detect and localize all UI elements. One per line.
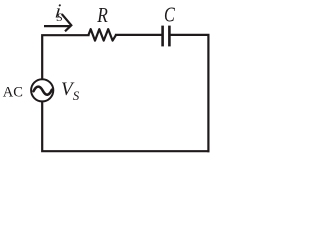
AC source V_S circle xyxy=(31,79,53,101)
wire resistor to capacitor xyxy=(116,34,161,36)
capacitor C left plate xyxy=(161,26,164,47)
current arrow head xyxy=(62,14,72,31)
resistor R xyxy=(89,29,117,40)
wire capacitor to top-right corner and right side xyxy=(171,35,209,151)
current arrow i_s shaft xyxy=(44,25,70,27)
capacitor C right plate xyxy=(168,26,171,47)
svg-text:R: R xyxy=(96,3,108,27)
svg-text:S: S xyxy=(73,88,80,103)
svg-text:AC: AC xyxy=(3,85,23,101)
wire bottom xyxy=(42,102,208,151)
svg-text:C: C xyxy=(164,3,176,27)
sine wave inside source xyxy=(34,87,52,95)
svg-text:S: S xyxy=(57,10,63,24)
wire top-left segment xyxy=(42,35,88,78)
